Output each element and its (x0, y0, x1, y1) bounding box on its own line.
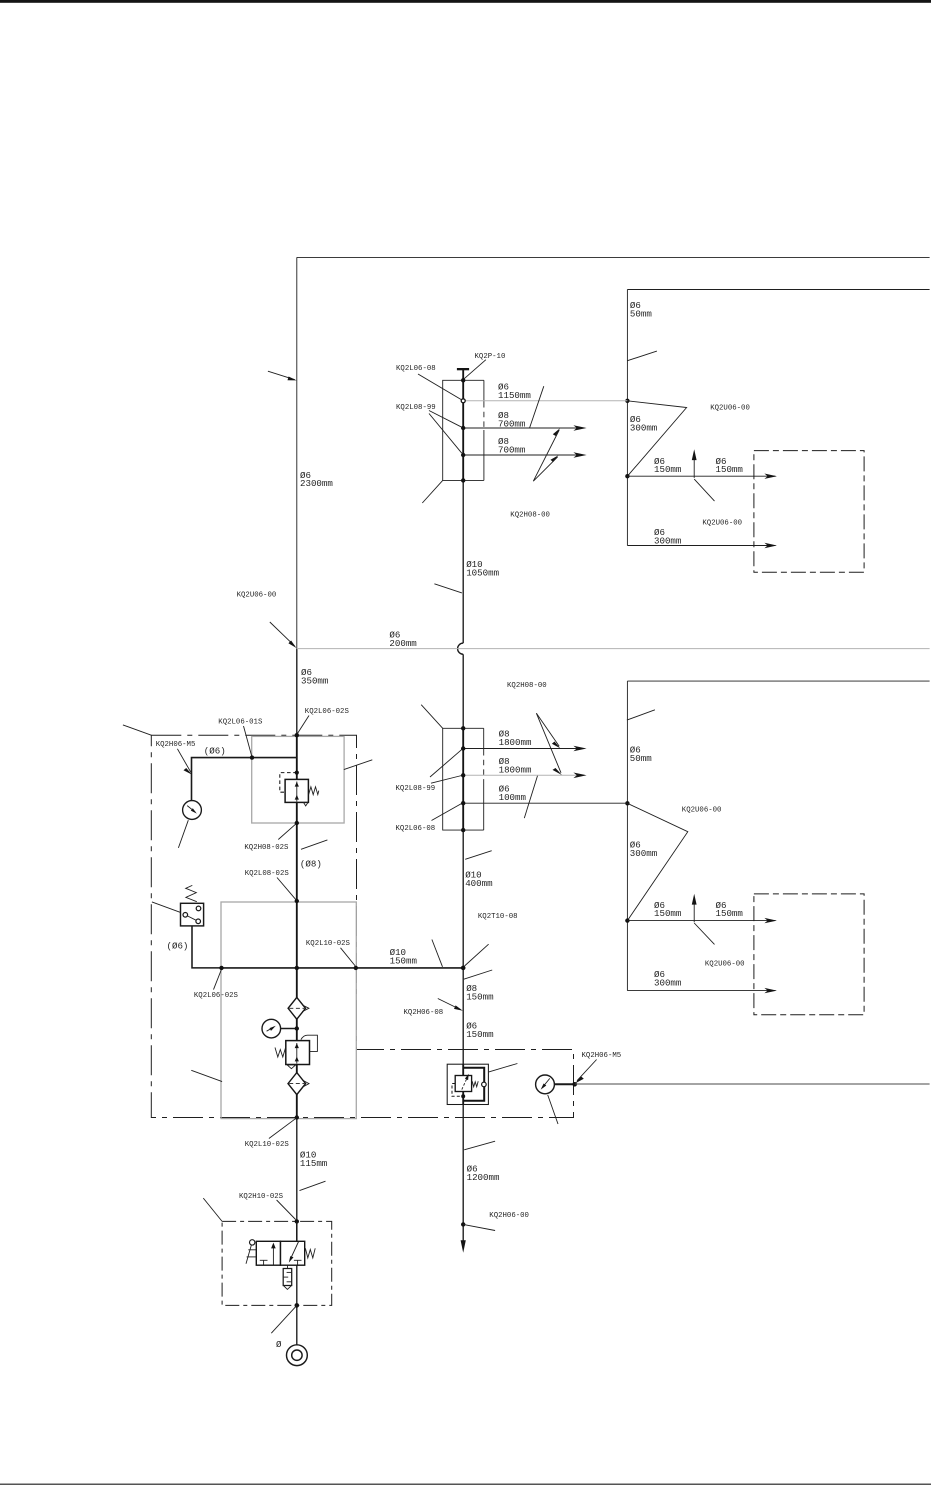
node: KQ2H06-00 connector on line 2 (461, 1222, 465, 1226)
leader: Ø10 400mm pointer (465, 851, 492, 860)
leader: KQ2U06-00 V-leader lower box (627, 803, 687, 920)
svg-text:KQ2U06-00: KQ2U06-00 (705, 961, 745, 969)
wire: main vertical line 1 below valve to silencer (296, 1265, 298, 1345)
svg-text:300mm: 300mm (630, 848, 658, 859)
wire: branch vertical line 2 manifold 1 section (462, 380, 464, 480)
wire: upper right box top edge (627, 289, 929, 291)
svg-text:KQ2H08-00: KQ2H08-00 (510, 511, 550, 519)
wire: branch vertical line 2 to tee junction (462, 830, 464, 968)
regulator R2 drain triangle (287, 1065, 295, 1069)
top border bar (0, 0, 931, 3)
svg-text:115mm: 115mm (300, 1158, 328, 1169)
svg-text:KQ2L06-02S: KQ2L06-02S (194, 992, 239, 1000)
valve port circle (482, 1082, 487, 1087)
valve V1 spring W (305, 1248, 315, 1258)
valve box outer outline (447, 1064, 488, 1104)
leader: pointer to valve box corner (203, 1198, 222, 1221)
wire: upper right box left edge (Ø6 50mm / 300mm) (626, 290, 628, 546)
regulator R1 spring (309, 787, 319, 795)
gauge G2 (FRL gauge) (262, 1019, 297, 1038)
leader: KQ2L06-01S to node (244, 726, 252, 756)
node: KQ2L10-02S on gray box 2 edge line (354, 966, 358, 970)
wire: main supply vertical line 1 upper (296, 257, 298, 648)
leader: KQ2T10-08 to tee (465, 944, 489, 966)
leader: pointer to gray box 2 left edge (191, 1070, 222, 1081)
pressure switch IS1000 (181, 885, 204, 925)
svg-text:50mm: 50mm (630, 309, 652, 320)
wire: Ø6 200mm header line (gray) (297, 648, 930, 650)
svg-text:2300mm: 2300mm (300, 478, 333, 489)
svg-text:150mm: 150mm (716, 464, 744, 475)
leader: Ø10 115mm pointer (300, 1181, 326, 1190)
wire: Ø8 1800mm line 1 with arrow (463, 746, 586, 752)
wire: line from gauge node to right edge (575, 1083, 930, 1085)
leader: bottom KQ2L10-02S to node (269, 1118, 296, 1138)
node: manifold 1 port 2 (461, 426, 465, 430)
wire: Ø6 150mm line into lower dash-dot box (627, 918, 777, 923)
node: manifold 2 bottom (461, 828, 465, 832)
node: manifold 2 port 3 (461, 801, 465, 805)
wire: crossing hop over 200mm line (458, 643, 464, 654)
leader: pointer to valve box (489, 1064, 518, 1072)
leader: slash mark on Ø8 line 1 (530, 386, 544, 428)
wire: branch vertical line 2 manifold 2 section (462, 728, 464, 830)
svg-text:KQ2H06-00: KQ2H06-00 (489, 1212, 529, 1220)
svg-text:350mm: 350mm (301, 676, 329, 687)
leader: pointer to main line 1 at top area (268, 371, 297, 380)
wire: top main header line (297, 256, 930, 258)
node: gauge G3 connection on enclosure edge (572, 1082, 577, 1087)
node: KQ2L06-02S (lower-left) (219, 966, 223, 970)
node: KQ2L10-02S on enclosure bottom (295, 1115, 299, 1119)
node: lower box inlet from Ø6 100mm line (625, 801, 629, 805)
leader: KQ2U06-00 V-leader upper box (627, 401, 686, 476)
valve V1 lever actuator (246, 1240, 256, 1264)
svg-text:KQ2H08-02S: KQ2H08-02S (244, 844, 289, 852)
leader: KQ2L06-08 to port 3 (432, 803, 462, 820)
svg-text:150mm: 150mm (654, 464, 682, 475)
regulator R1 body (285, 779, 308, 802)
svg-text:KQ2H06-M5: KQ2H06-M5 (582, 1052, 622, 1060)
leader: KQ2L08-99 to ports 2 and 3 (429, 411, 462, 454)
wire: Ø10 150mm horizontal line to tee (222, 967, 464, 969)
leader: KQ2L06-02S to node (297, 716, 309, 734)
regulator R2 spring W (275, 1048, 286, 1058)
leader: KQ2H10-02S to node (277, 1200, 296, 1220)
manifold 2 body (443, 728, 484, 830)
node: regulator R1 pilot tap (295, 771, 299, 775)
regulator R2 body (286, 1041, 310, 1065)
svg-text:KQ2H10-02S: KQ2H10-02S (239, 1193, 284, 1201)
svg-text:300mm: 300mm (654, 978, 682, 989)
wire: (Ø6) branch line to pressure gauge drop (192, 758, 297, 801)
leader: pointer to enclosure top-left corner (123, 725, 151, 735)
svg-text:KQ2L06-08: KQ2L06-08 (396, 825, 436, 833)
svg-text:50mm: 50mm (630, 753, 652, 764)
svg-text:KQ2U06-00: KQ2U06-00 (237, 591, 277, 599)
svg-text:1050mm: 1050mm (466, 567, 499, 578)
leader: KQ2U06-00 to up arrow (lower box) (694, 923, 714, 944)
regulator R2 internal flow arrows (295, 1043, 299, 1064)
svg-text:(Ø6): (Ø6) (167, 941, 189, 952)
svg-text:KQ2L10-02S: KQ2L10-02S (306, 940, 351, 948)
regulator R2 relief loop (301, 1035, 318, 1051)
node: KQ2L08-02S on gray box 2 top (295, 899, 299, 903)
svg-text:1200mm: 1200mm (467, 1172, 500, 1183)
svg-text:KQ2P-10: KQ2P-10 (475, 353, 506, 361)
node: manifold 2 port 2 (461, 773, 465, 777)
node: manifold 2 port 1 (461, 746, 465, 750)
node: upper box Ø6 150mm branch (625, 474, 629, 478)
leader: Ø6 50mm pointer (lower) (627, 710, 655, 720)
leader: Ø6 1200mm pointer (464, 1141, 495, 1150)
wire: branch vertical line 2 (Ø10 1050mm) (462, 480, 464, 643)
svg-text:300mm: 300mm (630, 422, 658, 433)
svg-text:150mm: 150mm (466, 1029, 494, 1040)
leader: pointer at gray box 1 right edge (344, 760, 373, 770)
leader: KQ2U06-00 to 200mm junction (270, 622, 297, 648)
leader: Ø10 1050mm pointer (434, 584, 462, 593)
leader: (Ø8) pointer (301, 840, 327, 849)
arrow: branch tee pointing up (lower box) (692, 894, 697, 923)
wire: main vertical line 1 mid (296, 649, 298, 736)
regulator R1 drain triangle (304, 803, 308, 806)
leader: pointer to pressure switch (152, 902, 181, 913)
silencer S1 under valve (283, 1265, 292, 1289)
node: crossing of horizontal line with main line 1 (295, 966, 299, 970)
svg-text:1800mm: 1800mm (499, 737, 532, 748)
wire: Ø8 700mm line 2 with arrow (463, 452, 586, 458)
leader: KQ2P-10 to top node (464, 360, 486, 379)
valve inner square (455, 1076, 471, 1092)
equipment outline: upper dash-dot box (754, 451, 864, 573)
leader: KQ2H08-00 V to the two 1800mm lines (536, 713, 562, 775)
gauge G3 (right gauge) (536, 1075, 575, 1094)
silencer S2 end element (double circle) (287, 1345, 308, 1366)
node: valve outlet on box bottom (295, 1303, 300, 1308)
node: KQ2T10-08 tee junction (461, 966, 466, 971)
wire: main vertical line 1 FRL section (296, 735, 298, 1117)
leader: KQ2L08-02S to node (277, 878, 296, 900)
svg-text:150mm: 150mm (466, 991, 494, 1002)
svg-text:KQ2L10-02S: KQ2L10-02S (245, 1141, 290, 1149)
filter F2 (diamond) (288, 1073, 309, 1095)
leader: KQ2H06-M5 to gauge drop with arrow (177, 749, 192, 775)
manifold 1 body (443, 380, 484, 480)
leader: stray pointer from gauge G3 (548, 1095, 558, 1124)
svg-text:100mm: 100mm (499, 792, 527, 803)
svg-text:1150mm: 1150mm (498, 390, 531, 401)
leader: KQ2H06-00 node pointer (463, 1224, 495, 1230)
leader: KQ2U06-00 to up arrow (upper box) (694, 479, 714, 501)
svg-text:300mm: 300mm (654, 535, 682, 546)
valve V1 right position square (281, 1241, 305, 1265)
svg-text:700mm: 700mm (498, 444, 526, 455)
node: lower box Ø6 150mm branch (625, 918, 629, 922)
enclosure: gray box 2 (filter unit) (221, 902, 356, 1119)
leader: KQ2L06-08 to port 1 (418, 374, 462, 400)
wire: Ø6 150mm line into upper dash-dot box (627, 474, 777, 479)
svg-text:1800mm: 1800mm (499, 764, 532, 775)
node: manifold 2 top (461, 726, 465, 730)
enclosure: gray box 1 (regulator unit) (252, 736, 344, 823)
svg-text:200mm: 200mm (389, 638, 417, 649)
svg-text:Ø: Ø (276, 1339, 282, 1350)
svg-text:400mm: 400mm (465, 878, 493, 889)
node: KQ2L06-01S branch node (250, 755, 254, 759)
leader: manifold 2 top-left corner pointer (421, 705, 443, 729)
equipment outline: valve dash-dot box (222, 1221, 332, 1305)
node: manifold 1 bottom (461, 478, 465, 482)
bottom border rule (0, 1484, 931, 1485)
valve V1 left position square (256, 1241, 280, 1265)
node: pilot tap on line 2 (461, 1094, 465, 1098)
node: gauge G2 tee (295, 1026, 299, 1030)
leader: slash mark on 1800mm line 2 (524, 776, 537, 818)
node: KQ2L06-02S on enclosure top (295, 733, 299, 737)
wire: Ø6 1150mm line (gray) to upper right box (463, 400, 627, 402)
svg-text:150mm: 150mm (390, 956, 418, 967)
filter F1 (diamond) (288, 997, 309, 1019)
leader: KQ2L08-99 to ports 1 and 2 (430, 749, 462, 783)
node: KQ2H08-02S below regulator (295, 821, 299, 825)
plug KQ2P-10 bar (457, 368, 469, 370)
leader: KQ2H06-M5 to gauge node with arrow (575, 1060, 597, 1084)
wire: branch vertical line 2 through check valve box (462, 1064, 464, 1104)
svg-text:KQ2U06-00: KQ2U06-00 (702, 520, 742, 528)
svg-text:KQ2T10-08: KQ2T10-08 (478, 913, 518, 921)
valve spring W (472, 1081, 478, 1087)
wire: Ø8 1800mm line 2 (gray) with arrow (463, 773, 586, 779)
gauge G1 (pressure gauge, left) (183, 801, 202, 820)
equipment outline: lower dash-dot box (754, 894, 864, 1015)
wire: branch vertical line 2 (Ø6 1200mm) (462, 1105, 464, 1247)
svg-text:KQ2L06-01S: KQ2L06-01S (218, 719, 263, 727)
leader: Ø8 150mm pointer (464, 970, 492, 979)
leader: pointer from valve outlet node (271, 1305, 297, 1333)
svg-text:150mm: 150mm (654, 908, 682, 919)
leader: Ø6 50mm pointer (627, 351, 657, 361)
regulator R1 pilot dashed box (280, 773, 297, 793)
svg-text:KQ2L08-99: KQ2L08-99 (396, 785, 436, 793)
svg-text:700mm: 700mm (498, 418, 526, 429)
leader: Ø10 150mm pointer (432, 940, 443, 967)
leader: KQ2H08-02S to node (278, 824, 296, 840)
wire: pressure switch drop (Ø6) (192, 926, 222, 968)
svg-text:KQ2H08-00: KQ2H08-00 (507, 682, 547, 690)
wire: valve inlet stub (296, 1221, 298, 1241)
regulator R1 internal flow arrows (295, 782, 299, 802)
node: KQ2H10-02S on box top (295, 1219, 299, 1223)
wire: lower right box left edge (626, 681, 628, 991)
leader: stray pointer from gauge G1 (178, 820, 188, 848)
leader: lower KQ2L06-02S to node (214, 970, 222, 990)
svg-text:KQ2U06-00: KQ2U06-00 (682, 807, 722, 815)
wire: lower right box top edge (627, 680, 929, 682)
svg-text:KQ2L06-08: KQ2L06-08 (396, 365, 436, 373)
wire: Ø8 700mm line 1 with arrow (463, 425, 586, 431)
valve pilot dashed line (452, 1084, 462, 1097)
leader: KQ2L10-02S to node (341, 948, 356, 966)
wire: branch vertical line 2 plug stem (462, 369, 464, 380)
equipment outline: dash-dot enclosure (L-shape) (151, 735, 573, 1117)
node: upper box inlet from Ø6 1150mm line (625, 399, 629, 403)
svg-text:KQ2H06-08: KQ2H06-08 (404, 1009, 444, 1017)
wire: lower box bottom edge Ø6 300mm with arrow (627, 988, 777, 993)
wire: Ø6 100mm line to lower right box (463, 802, 627, 804)
wire: upper box bottom edge Ø6 300mm with arrow (627, 543, 777, 548)
leader: KQ2H06-08 to line 2 with arrow (438, 999, 463, 1011)
svg-text:KQ2U06-00: KQ2U06-00 (710, 405, 750, 413)
leader: KQ2H08-00 V to both Ø8 arrows (533, 428, 560, 481)
svg-text:(Ø6): (Ø6) (204, 746, 226, 757)
node: manifold 1 port 1 (ring) (461, 399, 465, 403)
arrow: branch tee pointing up (upper box) (692, 449, 697, 478)
wire: main vertical line 1 lower (Ø10 115mm) (296, 1118, 298, 1242)
svg-text:KQ2H06-M5: KQ2H06-M5 (156, 741, 196, 749)
valve bypass loop (thick) (463, 1068, 484, 1101)
arrow: open end of line 2 pointing down (461, 1240, 466, 1253)
svg-text:KQ2L08-02S: KQ2L08-02S (245, 870, 290, 878)
svg-text:KQ2L06-02S: KQ2L06-02S (305, 708, 350, 716)
node: manifold 1 port 3 (461, 453, 465, 457)
wire: branch vertical line 2 (Ø10 400mm) (462, 654, 464, 728)
valve inner flow arrow (462, 1074, 469, 1090)
leader: manifold 1 bottom corner pointer (422, 480, 442, 503)
node: manifold 1 top (461, 378, 465, 382)
svg-text:(Ø8): (Ø8) (300, 859, 322, 870)
wire: branch vertical line 2 (Ø8/Ø6 150mm) (462, 968, 464, 1064)
svg-text:150mm: 150mm (716, 908, 744, 919)
